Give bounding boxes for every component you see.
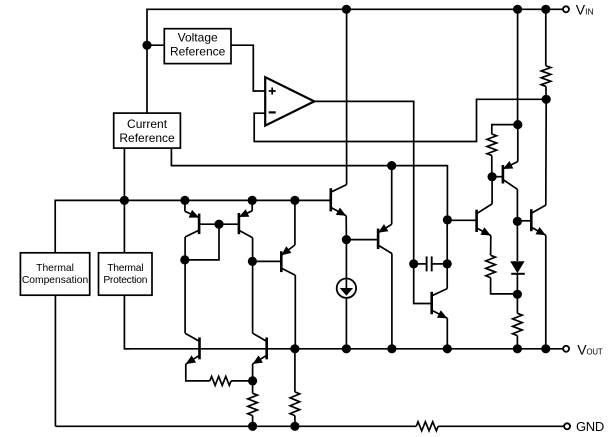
wire Q6 collector to node A bbox=[446, 220, 448, 289]
resistor R5 bbox=[210, 376, 231, 385]
wire Q9 collector up bbox=[545, 99, 547, 205]
transistor Q4 bbox=[331, 185, 347, 216]
wire current source to V_OUT rail bbox=[345, 298, 347, 349]
node mid rail / Q3 emitter bbox=[290, 196, 299, 205]
node top rail / R1 bbox=[541, 5, 550, 14]
terminal GND bbox=[564, 423, 570, 429]
resistor R3 bbox=[486, 255, 496, 277]
transistor Q8 bbox=[503, 161, 518, 189]
wire R5 to node C bbox=[231, 380, 253, 382]
svg-text:Thermal: Thermal bbox=[107, 263, 143, 274]
wire Q11 emitter to node C bbox=[252, 364, 254, 381]
wire R6 bottom bbox=[252, 416, 254, 427]
transistor Q11 bbox=[253, 333, 267, 364]
wire V_IN top rail bbox=[147, 9, 563, 113]
node V_OUT rail / current source bbox=[342, 344, 351, 353]
transistor Q9 bbox=[531, 205, 546, 235]
wire Q7 collector to R2 bbox=[491, 177, 493, 204]
wire R1 top bbox=[545, 9, 547, 66]
wire Q4 emitter to current source bbox=[345, 216, 347, 279]
wire V_OUT rail bbox=[124, 348, 563, 350]
wire Q1 collector to Q10 collector bbox=[184, 237, 186, 333]
resistor R4 bbox=[513, 313, 523, 335]
node V_OUT rail / Q6 emitter bbox=[443, 344, 452, 353]
node A bias/Q6 collector/Q7 base bbox=[443, 215, 452, 224]
wire Q8 base link bbox=[492, 176, 503, 178]
wire Q3 collector to V_OUT rail bbox=[294, 275, 296, 349]
wire Thermal Compensation to GND rail bbox=[54, 295, 56, 426]
node C1 left plate bbox=[409, 259, 418, 268]
wire Q9 emitter to V_OUT rail bbox=[545, 235, 547, 348]
block Voltage Reference bbox=[164, 29, 231, 64]
wire Q1 base-collector tie bbox=[185, 224, 219, 260]
wire Current Reference bias line to node A bbox=[171, 148, 447, 220]
current source I1 bbox=[337, 279, 356, 298]
wire Q5 collector to V_OUT rail bbox=[391, 254, 393, 349]
wire Q8 emitter stub bbox=[517, 125, 519, 162]
wire Q7 emitter to R3 bbox=[490, 236, 492, 256]
wire Q8 emitter rail bbox=[517, 9, 519, 124]
wire R3 bottom to node B bbox=[491, 278, 518, 294]
resistor R8 bbox=[416, 422, 438, 431]
node Q1 collector / base tie bbox=[180, 255, 189, 264]
node V_OUT rail / Q9 emitter bbox=[541, 344, 550, 353]
wire R1 bottom bbox=[545, 86, 547, 99]
node Q8 emitter / R2 bbox=[513, 120, 522, 129]
wire R2 bottom link bbox=[491, 156, 493, 177]
node top rail / Q4 collector bbox=[342, 5, 351, 14]
transistor Q1 bbox=[185, 210, 219, 237]
terminal V_IN bbox=[563, 6, 569, 12]
svg-text:Reference: Reference bbox=[170, 45, 226, 59]
node V_OUT rail / Q5 collector bbox=[387, 344, 396, 353]
resistor R6 bbox=[248, 393, 258, 415]
wire Q7 base link bbox=[447, 219, 476, 221]
node V_OUT rail / Q3 collector / R7 bbox=[290, 344, 299, 353]
svg-text:Voltage: Voltage bbox=[178, 30, 218, 44]
wire Voltage Reference output to op-amp + input bbox=[231, 45, 265, 91]
wire R7 top bbox=[294, 349, 296, 392]
svg-text:Compensation: Compensation bbox=[22, 275, 89, 286]
wire Current Reference left output to mid rail bbox=[123, 148, 125, 200]
transistor Q2 bbox=[219, 209, 253, 238]
block Current Reference bbox=[114, 113, 181, 148]
node voltage reference tap bbox=[142, 41, 151, 50]
wire GND rail left bbox=[55, 425, 416, 427]
svg-text:GND: GND bbox=[576, 419, 604, 434]
node Q4 emitter / Q5 base bbox=[342, 235, 351, 244]
wire R4 top bbox=[516, 294, 518, 313]
wire op-amp output to Q6 base bbox=[314, 101, 431, 303]
node GND rail / R6 bbox=[248, 422, 257, 431]
transistor Q10 bbox=[185, 333, 199, 364]
wire Q9 base link bbox=[517, 220, 531, 222]
op-amp U1 bbox=[265, 77, 314, 125]
node B D1/R3/R4 bbox=[513, 290, 522, 299]
svg-text:Thermal: Thermal bbox=[36, 263, 74, 274]
wire Q2 emitter stub bbox=[251, 200, 253, 210]
wire Q2 collector to Q11 collector bbox=[252, 238, 254, 334]
wire D1 cathode to node B bbox=[516, 274, 518, 295]
diode D1 bbox=[510, 261, 525, 274]
wire R4 bottom bbox=[516, 336, 518, 349]
transistor Q6 bbox=[432, 289, 448, 319]
node R1 / feedback / Q9 collector bbox=[542, 95, 551, 104]
svg-text:Current: Current bbox=[127, 117, 168, 131]
transistor Q7 bbox=[477, 204, 493, 236]
wire R6 top bbox=[252, 381, 254, 393]
node GND rail / R7 bbox=[290, 422, 299, 431]
wire GND rail right bbox=[438, 425, 564, 427]
node C1 right plate bbox=[443, 259, 452, 268]
wire Q4 collector to top rail bbox=[346, 9, 348, 184]
node mid rail / Q2 emitter bbox=[248, 196, 257, 205]
wire mid rail bbox=[55, 200, 330, 252]
node Q8 collector / Q9 base bbox=[513, 217, 522, 226]
wire Thermal Protection top bbox=[123, 200, 125, 252]
node mid rail / Current Reference / Thermal Protection bbox=[120, 196, 129, 205]
resistor R7 bbox=[290, 392, 300, 416]
terminal V_OUT bbox=[563, 346, 569, 352]
node bias line / Q5 emitter bbox=[387, 161, 396, 170]
svg-text:Protection: Protection bbox=[103, 275, 147, 286]
node mid rail / Q1 emitter bbox=[180, 196, 189, 205]
capacitor C1 bbox=[414, 256, 448, 271]
wire Q10 emitter to R5 bbox=[186, 364, 210, 381]
wire Q8 collector down bbox=[516, 189, 518, 261]
wire R7 bottom bbox=[294, 416, 296, 427]
node V_OUT rail / R4 bbox=[513, 344, 522, 353]
wire R2 top link bbox=[492, 125, 518, 134]
transistor Q3 bbox=[252, 245, 295, 275]
node Q2 collector / Q3 base bbox=[248, 257, 257, 266]
wire Q6 emitter to V_OUT rail bbox=[446, 318, 448, 349]
wire voltage reference input bbox=[147, 44, 164, 46]
resistor R1 bbox=[541, 66, 551, 87]
wire Q1 emitter stub bbox=[184, 200, 186, 211]
wire Q3 emitter stub bbox=[294, 200, 296, 245]
svg-text:Reference: Reference bbox=[119, 131, 175, 145]
transistor Q5 bbox=[378, 224, 392, 253]
node top rail / Q8 emitter rail bbox=[513, 5, 522, 14]
node C Q10/Q11 emitters / R6 bbox=[248, 376, 257, 385]
wire Q5 base link bbox=[346, 239, 378, 241]
wire Thermal Protection to V_OUT rail bbox=[124, 295, 130, 349]
node Q1/Q2 base bbox=[214, 220, 223, 229]
block Thermal Protection bbox=[99, 253, 153, 295]
wire op-amp - input feedback bbox=[254, 99, 546, 141]
node Q7 collector / R2 / Q8 base bbox=[488, 172, 497, 181]
block Thermal Compensation bbox=[20, 253, 89, 295]
wire Q5 emitter stub bbox=[391, 166, 393, 225]
resistor R2 bbox=[487, 134, 497, 155]
